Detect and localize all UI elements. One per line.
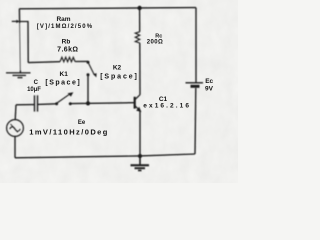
svg-text:Ee: Ee	[78, 120, 86, 126]
svg-text:1mV/110Hz/0Deg: 1mV/110Hz/0Deg	[29, 128, 109, 137]
svg-text:200Ω: 200Ω	[147, 39, 164, 45]
ground (bottom center)	[131, 156, 150, 171]
wire K1 to base	[72, 102, 135, 105]
wire K2 to base node	[87, 76, 89, 103]
wire bottom rail	[15, 154, 195, 158]
potentiometer wiper arrow	[12, 20, 20, 23]
svg-text:[V]/1MΩ/2/50%: [V]/1MΩ/2/50%	[37, 24, 93, 30]
node base junction	[86, 101, 90, 105]
wire collector up to Rc	[139, 43, 141, 95]
battery Ec	[186, 83, 204, 87]
wire source vertical bottom	[14, 136, 16, 157]
resistor Rb (zigzag)	[60, 57, 75, 62]
wire emitter down to bottom rail	[139, 111, 141, 156]
svg-text:9V: 9V	[205, 85, 214, 92]
svg-text:Ec: Ec	[205, 78, 213, 85]
svg-text:[Space]: [Space]	[45, 80, 81, 87]
svg-text:C: C	[34, 80, 39, 86]
svg-text:[Space]: [Space]	[100, 74, 139, 81]
wire source top to capacitor	[16, 104, 34, 106]
svg-text:K1: K1	[60, 71, 69, 78]
wire source vertical top	[14, 105, 17, 120]
svg-text:10µF: 10µF	[27, 87, 41, 93]
wire Rb left lead	[28, 61, 60, 64]
svg-text:Rb: Rb	[62, 39, 71, 46]
wire top rail	[19, 8, 196, 9]
resistor Rc (vertical zigzag)	[135, 32, 140, 43]
wire wiper to Rb	[20, 22, 29, 63]
wire right vertical lower	[194, 88, 197, 154]
switch K1 (horizontal)	[55, 92, 73, 105]
wire right vertical upper	[195, 8, 197, 83]
wire capacitor to K1	[38, 103, 57, 106]
svg-text:Ram: Ram	[56, 16, 70, 23]
switch K2 (vertical)	[87, 61, 97, 78]
wire Rc top to rail	[139, 8, 141, 32]
svg-text:K2: K2	[113, 65, 122, 72]
svg-text:ex16.2.16: ex16.2.16	[143, 103, 191, 110]
transistor C1 (NPN)	[135, 95, 142, 112]
wire Rb right lead	[75, 60, 88, 62]
potentiometer Ram (left vertical track)	[18, 9, 20, 23]
capacitor C	[35, 95, 38, 111]
node bottom junction	[138, 154, 142, 158]
ground (under potentiometer)	[6, 71, 31, 78]
svg-text:7.6kΩ: 7.6kΩ	[57, 47, 78, 54]
node top junction	[137, 6, 141, 10]
AC source Ee	[7, 120, 24, 137]
